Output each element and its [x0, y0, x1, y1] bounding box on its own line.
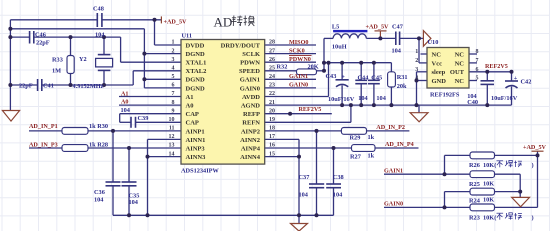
svg-text:): ) [532, 215, 534, 222]
svg-text:DGND: DGND [186, 85, 205, 92]
svg-text:10uH: 10uH [332, 44, 347, 51]
svg-text:16: 16 [269, 143, 275, 149]
svg-text:10uF/16V: 10uF/16V [491, 95, 518, 102]
svg-text:4: 4 [415, 76, 418, 82]
svg-text:Y2: Y2 [79, 56, 87, 63]
svg-text:A1: A1 [121, 92, 129, 98]
svg-text:DVDD: DVDD [186, 42, 205, 49]
svg-text:4.9152MHz: 4.9152MHz [73, 83, 104, 90]
svg-text:DRDY/DOUT: DRDY/DOUT [221, 42, 261, 49]
svg-text:GAIN0: GAIN0 [240, 85, 260, 92]
svg-text:U10: U10 [428, 39, 439, 46]
svg-text:R24: R24 [469, 197, 481, 204]
svg-text:+AD_5V: +AD_5V [523, 145, 547, 151]
svg-text:CAP: CAP [186, 120, 199, 127]
svg-text:10K(: 10K( [483, 215, 496, 222]
svg-text:MISO0: MISO0 [289, 40, 308, 46]
svg-text:AINN2: AINN2 [240, 137, 260, 144]
svg-text:104: 104 [94, 197, 104, 204]
svg-text:XTAL1: XTAL1 [186, 60, 207, 67]
svg-text:+AD_5V: +AD_5V [164, 20, 188, 26]
svg-text:R27: R27 [350, 153, 361, 160]
svg-text:104: 104 [95, 31, 105, 38]
svg-text:A0: A0 [121, 100, 129, 106]
svg-text:C42: C42 [521, 78, 532, 85]
svg-text:1k R30: 1k R30 [89, 123, 108, 130]
svg-text:DGND: DGND [186, 77, 205, 84]
svg-text:U11: U11 [182, 33, 193, 40]
svg-text:C37: C37 [299, 174, 310, 181]
svg-text:6: 6 [172, 83, 175, 89]
svg-text:24: 24 [269, 74, 275, 80]
svg-text:6: 6 [476, 67, 479, 73]
svg-text:AD_IN_P3: AD_IN_P3 [29, 143, 58, 149]
svg-text:AINN3: AINN3 [186, 154, 207, 161]
svg-text:9: 9 [172, 108, 175, 114]
svg-text:SCLK: SCLK [242, 51, 260, 58]
svg-text:28: 28 [269, 40, 275, 46]
svg-text:GAIN0: GAIN0 [384, 202, 403, 208]
svg-text:11: 11 [169, 126, 175, 132]
svg-text:C40: C40 [467, 99, 478, 106]
svg-text:104: 104 [121, 107, 131, 114]
svg-text:NC: NC [432, 51, 442, 58]
svg-text:21: 21 [269, 100, 275, 106]
svg-text:SCK0: SCK0 [289, 48, 305, 54]
svg-text:8: 8 [172, 100, 175, 106]
svg-text:NC: NC [455, 78, 465, 85]
svg-text:AINP1: AINP1 [186, 128, 205, 135]
svg-text:1: 1 [415, 49, 418, 55]
svg-text:OUT: OUT [450, 69, 465, 76]
svg-text:PDWN0: PDWN0 [289, 57, 311, 63]
svg-text:25: 25 [269, 66, 275, 72]
svg-text:104: 104 [129, 199, 139, 206]
svg-text:14: 14 [169, 151, 175, 157]
svg-text:22: 22 [269, 91, 275, 97]
svg-text:19: 19 [269, 117, 275, 123]
svg-text:AINN1: AINN1 [186, 137, 206, 144]
svg-text:C45: C45 [371, 74, 382, 81]
svg-text:AD: AD [214, 15, 233, 30]
svg-text:1k: 1k [368, 134, 375, 141]
svg-text:10K: 10K [483, 180, 494, 187]
svg-text:12: 12 [169, 134, 175, 140]
svg-text:13: 13 [169, 143, 175, 149]
svg-text:GAIN1: GAIN1 [384, 168, 403, 174]
svg-text:104: 104 [392, 48, 402, 55]
svg-text:R31: R31 [397, 74, 408, 81]
svg-text:AINP2: AINP2 [241, 128, 260, 135]
svg-text:REF2V5: REF2V5 [485, 64, 508, 70]
svg-text:sleep: sleep [432, 69, 446, 76]
svg-text:20K: 20K [308, 63, 319, 70]
svg-text:L5: L5 [332, 23, 339, 30]
svg-text:104: 104 [299, 191, 309, 198]
svg-text:1k R28: 1k R28 [89, 142, 108, 149]
svg-text:3: 3 [415, 67, 418, 73]
svg-text:): ) [532, 162, 534, 169]
svg-text:AD_IN_P2: AD_IN_P2 [376, 125, 405, 131]
svg-text:+AD_5V: +AD_5V [366, 24, 390, 30]
svg-text:C41: C41 [43, 83, 54, 90]
svg-text:8: 8 [476, 49, 479, 55]
svg-text:GAIN1: GAIN1 [240, 77, 260, 84]
svg-text:AD_IN_P1: AD_IN_P1 [29, 124, 58, 130]
svg-text:GAIN1: GAIN1 [289, 74, 308, 80]
svg-text:104: 104 [376, 95, 386, 102]
svg-text:+: + [341, 74, 345, 81]
svg-text:C46: C46 [35, 31, 46, 38]
svg-text:3: 3 [172, 57, 175, 63]
svg-text:R26: R26 [469, 162, 480, 169]
svg-text:1k: 1k [368, 153, 375, 160]
svg-text:GAIN0: GAIN0 [289, 83, 308, 89]
svg-text:AGND: AGND [241, 103, 260, 110]
svg-text:C39: C39 [138, 115, 149, 122]
svg-text:18: 18 [269, 126, 275, 132]
svg-text:R29: R29 [350, 134, 361, 141]
svg-text:C44: C44 [358, 74, 370, 81]
svg-text:NC: NC [455, 51, 465, 58]
svg-text:27: 27 [269, 48, 275, 54]
svg-text:CAP: CAP [186, 111, 199, 118]
svg-text:104: 104 [333, 191, 343, 198]
svg-text:22pF: 22pF [36, 39, 50, 46]
svg-text:2: 2 [415, 58, 418, 64]
svg-text:R33: R33 [52, 57, 63, 64]
svg-text:AVDD: AVDD [242, 94, 260, 101]
svg-text:C36: C36 [94, 189, 105, 196]
svg-text:22pF: 22pF [19, 83, 33, 90]
svg-text:AD_IN_P4: AD_IN_P4 [385, 142, 414, 148]
svg-text:1M: 1M [52, 68, 61, 75]
svg-text:SPEED: SPEED [239, 68, 260, 75]
svg-text:20: 20 [269, 108, 275, 114]
svg-text:26: 26 [269, 57, 275, 63]
svg-text:REFN: REFN [242, 120, 260, 127]
svg-text:REF192FS: REF192FS [430, 91, 460, 98]
svg-text:+: + [514, 75, 518, 82]
svg-text:A1: A1 [186, 94, 194, 101]
svg-text:C48: C48 [93, 6, 104, 13]
svg-text:10: 10 [169, 117, 175, 123]
svg-text:ADS1234IPW: ADS1234IPW [181, 167, 219, 174]
svg-text:XTAL2: XTAL2 [186, 68, 207, 75]
svg-text:REFP: REFP [243, 111, 260, 118]
svg-text:10K(: 10K( [483, 162, 496, 169]
svg-text:5: 5 [476, 76, 479, 82]
svg-text:AINP3: AINP3 [186, 145, 206, 152]
svg-text:REF2V5: REF2V5 [299, 107, 322, 113]
svg-text:10uF/16V: 10uF/16V [328, 96, 355, 103]
svg-text:5: 5 [172, 74, 175, 80]
svg-text:104: 104 [358, 95, 368, 102]
svg-text:R23: R23 [469, 215, 480, 222]
svg-text:R25: R25 [469, 181, 480, 188]
svg-text:GND: GND [432, 78, 447, 85]
svg-text:1: 1 [172, 40, 175, 46]
svg-text:7: 7 [476, 58, 479, 64]
svg-text:C47: C47 [392, 23, 403, 30]
svg-text:R32: R32 [277, 63, 288, 70]
svg-text:17: 17 [269, 134, 275, 140]
svg-text:4: 4 [172, 66, 175, 72]
svg-text:AINN4: AINN4 [240, 154, 261, 161]
svg-text:7: 7 [172, 91, 175, 97]
svg-text:AINP4: AINP4 [241, 145, 261, 152]
svg-text:PDWN: PDWN [240, 60, 260, 67]
svg-text:20k: 20k [397, 83, 407, 90]
svg-text:NC: NC [455, 60, 465, 67]
svg-text:C43: C43 [326, 73, 337, 80]
svg-text:C38: C38 [333, 174, 344, 181]
svg-text:23: 23 [269, 83, 275, 89]
svg-text:2: 2 [172, 48, 175, 54]
svg-text:A0: A0 [186, 103, 194, 110]
svg-text:15: 15 [269, 151, 275, 157]
svg-text:DGND: DGND [186, 51, 205, 58]
svg-text:Vcc: Vcc [432, 60, 443, 67]
svg-text:10K: 10K [483, 197, 494, 204]
